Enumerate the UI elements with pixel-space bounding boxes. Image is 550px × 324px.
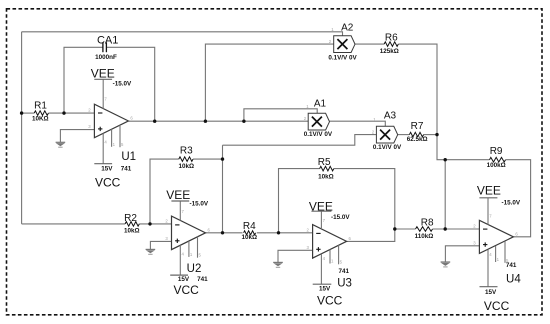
label VCC U2	[174, 283, 200, 297]
value R9 100kΩ	[487, 162, 506, 169]
resistor R8	[416, 227, 433, 232]
resistor R6	[384, 42, 398, 47]
label U4	[506, 273, 521, 285]
svg-text:VEE: VEE	[309, 200, 333, 214]
svg-text:741: 741	[506, 262, 517, 269]
op-amp U4	[479, 220, 513, 253]
value U3 741	[338, 268, 349, 275]
svg-text:10kΩ: 10kΩ	[242, 234, 258, 241]
svg-text:R5: R5	[318, 157, 331, 168]
U4 offset pin 5	[504, 241, 506, 263]
wire R6 down to R7 node	[398, 44, 445, 160]
svg-text:A3: A3	[384, 111, 397, 122]
label R4	[243, 221, 256, 232]
svg-text:R7: R7	[411, 121, 424, 132]
value R8 110kΩ	[415, 233, 434, 240]
svg-text:15V: 15V	[101, 166, 113, 173]
wire A2 output to R6	[355, 43, 384, 45]
svg-text:0.1V/V 0V: 0.1V/V 0V	[373, 144, 402, 151]
U4 VCC rail bar	[480, 286, 498, 288]
wire left vertical net	[21, 32, 23, 224]
U3 offset pin 5	[338, 245, 340, 264]
node A1 branch junction	[242, 120, 245, 123]
U4 offset pin 1	[495, 246, 497, 262]
U2 VCC rail bar	[170, 274, 188, 276]
value U2 741	[197, 276, 208, 283]
label R3	[180, 146, 193, 157]
wire branch to A2 lower input	[205, 44, 333, 121]
multiplier A2	[334, 36, 355, 53]
svg-text:VEE: VEE	[477, 184, 501, 198]
resistor R7	[409, 132, 423, 137]
U1 offset pin 5	[119, 125, 121, 147]
svg-text:A1: A1	[314, 98, 327, 109]
node R5/R8/U3 output junction	[393, 227, 396, 230]
node R1/left net junction	[20, 111, 23, 114]
value R5 10kΩ	[318, 173, 334, 180]
label R7	[411, 121, 424, 132]
svg-text:-15.0V: -15.0V	[502, 200, 521, 207]
wire R9 input row	[445, 159, 489, 161]
label R1	[34, 101, 47, 112]
value U1 741	[121, 166, 132, 173]
label CA1	[97, 34, 118, 46]
label R2	[124, 213, 137, 224]
A2 pin numbers	[329, 27, 335, 44]
wire R7/R9 junction vertical	[444, 160, 446, 229]
svg-text:A2: A2	[341, 22, 354, 33]
label U3	[337, 278, 352, 290]
value U4 15V	[485, 289, 497, 296]
value A3 gain	[373, 144, 402, 151]
wire U1 output row	[128, 120, 308, 122]
capacitor CA1	[103, 42, 107, 52]
A3 pin numbers	[372, 117, 377, 135]
svg-text:R6: R6	[385, 33, 398, 44]
U2 pin numbers	[165, 209, 210, 258]
label VEE U2	[166, 188, 190, 202]
U3 VEE rail bar	[311, 210, 331, 212]
resistor R1	[34, 111, 48, 116]
resistor R5	[320, 166, 334, 171]
svg-text:0.1V/V 0V: 0.1V/V 0V	[328, 55, 357, 62]
value U1 -15.0V	[113, 81, 132, 88]
value U4 -15.0V	[502, 200, 521, 207]
wire R8 to U4 inverting input	[433, 228, 480, 230]
svg-text:VCC: VCC	[484, 299, 510, 313]
svg-text:741: 741	[338, 268, 349, 275]
value R4 10kΩ	[242, 234, 258, 241]
U2 offset pin 5	[197, 237, 199, 258]
svg-text:R8: R8	[421, 217, 434, 228]
wire R5 right side to U3 output	[334, 169, 395, 242]
value R1 10KΩ	[32, 116, 49, 123]
svg-text:VEE: VEE	[91, 66, 115, 80]
wire U2 non-inverting input to ground	[150, 241, 171, 249]
svg-text:R9: R9	[490, 146, 503, 157]
label VCC U1	[95, 176, 121, 190]
label VCC U3	[317, 293, 343, 307]
value R3 10kΩ	[179, 163, 195, 170]
label A3	[384, 111, 397, 122]
value R6 125kΩ	[380, 48, 399, 55]
U1 pin numbers	[88, 97, 133, 148]
U4 VEE pin wire	[487, 198, 489, 225]
label A1	[314, 98, 327, 109]
ground at U4 input	[441, 262, 451, 267]
value U3 -15.0V	[331, 214, 350, 221]
ground at U2 input	[146, 249, 156, 254]
wire R1 to U1 inverting input	[48, 112, 94, 114]
svg-text:R1: R1	[34, 101, 47, 112]
label VEE U3	[309, 200, 333, 214]
U3 pin numbers	[307, 218, 352, 264]
node CA1 left junction	[62, 111, 65, 114]
U2 VEE pin wire	[179, 201, 181, 221]
wire R2 input row	[22, 223, 126, 225]
svg-text:0.1V/V 0V: 0.1V/V 0V	[304, 131, 333, 138]
svg-text:125kΩ: 125kΩ	[380, 48, 399, 55]
svg-text:CA1: CA1	[97, 34, 118, 46]
ground at U3 input	[273, 262, 283, 267]
label U1	[121, 151, 136, 163]
svg-text:15V: 15V	[485, 289, 497, 296]
svg-text:R3: R3	[180, 146, 193, 157]
U4 VCC pin wire	[487, 250, 489, 287]
U3 offset pin 1	[329, 250, 331, 264]
svg-text:10kΩ: 10kΩ	[318, 173, 334, 180]
wire R2 to U2 inverting input	[139, 223, 171, 225]
svg-text:U2: U2	[187, 263, 202, 275]
U1 VEE rail bar	[94, 78, 112, 80]
resistor R2	[125, 222, 139, 227]
wire R9 right side to U4 output	[506, 160, 531, 237]
svg-text:15V: 15V	[319, 286, 331, 293]
wire R7 to vertical node	[424, 134, 437, 136]
svg-text:741: 741	[197, 276, 208, 283]
wire U4 non-inverting input to ground	[445, 246, 479, 262]
wire CA1 feedback loop	[64, 47, 103, 113]
multiplier A1	[308, 113, 329, 130]
svg-text:U1: U1	[121, 151, 136, 163]
node R6/R7 junction	[435, 133, 438, 136]
label R8	[421, 217, 434, 228]
U4 pin numbers	[473, 214, 518, 263]
label A2	[341, 22, 354, 33]
svg-text:R2: R2	[124, 213, 137, 224]
wire R4 to U3 inverting input	[257, 232, 313, 234]
label U2	[187, 263, 202, 275]
wire U2 output row	[206, 232, 243, 234]
svg-text:741: 741	[121, 166, 132, 173]
value U2 15V	[178, 276, 190, 283]
svg-text:10KΩ: 10KΩ	[32, 116, 49, 123]
node R8/U4 input junction	[444, 227, 447, 230]
svg-text:15V: 15V	[178, 276, 190, 283]
value R7 62.5kΩ	[407, 136, 428, 143]
op-amp U2	[172, 216, 206, 250]
svg-text:-15.0V: -15.0V	[331, 214, 350, 221]
node R5 left junction	[277, 231, 280, 234]
node A2 branch junction	[204, 120, 207, 123]
label VCC U4	[484, 299, 510, 313]
wire A1 output to A3 top input	[330, 121, 386, 126]
value CA1 1000nF	[95, 54, 117, 61]
U2 VCC pin wire	[179, 245, 181, 275]
resistor R4	[244, 231, 256, 235]
wire R5 feedback left side	[279, 169, 320, 233]
U2 offset pin 1	[188, 241, 190, 257]
value A2 gain	[328, 55, 357, 62]
node R3/U2 output junction	[221, 157, 224, 160]
U1 VCC pin wire	[102, 133, 104, 163]
wire U2 output vertical to A3 net	[222, 145, 224, 233]
A1 pin numbers	[304, 104, 310, 121]
svg-text:VCC: VCC	[174, 283, 200, 297]
svg-text:U4: U4	[506, 273, 521, 285]
node R2/R3 junction	[148, 222, 151, 225]
U1 offset pin 1	[111, 129, 113, 147]
op-amp U3	[313, 225, 347, 259]
value U4 741	[506, 262, 517, 269]
value U2 -15.0V	[190, 201, 209, 208]
wire R1 input row	[22, 112, 35, 114]
wire CA1 right side to U1 output	[106, 47, 154, 121]
wire branch to A1 top input	[244, 109, 317, 121]
svg-text:100kΩ: 100kΩ	[487, 162, 506, 169]
label R6	[385, 33, 398, 44]
U4 VEE rail bar	[479, 197, 497, 199]
resistor R3	[179, 157, 193, 162]
node U1 output / CA1 junction	[153, 120, 156, 123]
value A1 gain	[304, 131, 333, 138]
label VEE U1	[91, 66, 115, 80]
svg-text:U3: U3	[337, 278, 352, 290]
wire R3 right side	[193, 158, 223, 160]
svg-text:110kΩ: 110kΩ	[415, 233, 434, 240]
svg-text:VCC: VCC	[317, 293, 343, 307]
resistor R9	[490, 157, 506, 162]
op-amp U1	[94, 104, 128, 138]
svg-text:-15.0V: -15.0V	[113, 81, 132, 88]
label VEE U4	[477, 184, 501, 198]
U1 VEE pin wire	[102, 79, 104, 108]
svg-text:62.5kΩ: 62.5kΩ	[407, 136, 428, 143]
ground at U1 input	[56, 142, 66, 147]
wire R3 feedback left side	[150, 159, 179, 224]
wire A3 output to R7	[398, 134, 409, 136]
svg-text:VEE: VEE	[166, 188, 190, 202]
wire top feedback net	[22, 32, 343, 36]
U3 VCC rail bar	[313, 283, 332, 285]
svg-text:1000nF: 1000nF	[95, 54, 117, 61]
svg-text:VCC: VCC	[95, 176, 121, 190]
svg-text:-15.0V: -15.0V	[190, 201, 209, 208]
wire U1 non-inverting input to ground	[60, 130, 94, 143]
node U2 output junction	[221, 231, 224, 234]
value U3 15V	[319, 286, 331, 293]
U2 VEE rail bar	[171, 200, 189, 202]
U1 VCC rail bar	[94, 163, 112, 165]
svg-text:10kΩ: 10kΩ	[124, 228, 140, 235]
U3 VCC pin wire	[320, 254, 322, 284]
label R5	[318, 157, 331, 168]
U3 VEE pin wire	[320, 211, 322, 229]
wire U3 non-inverting input to ground	[278, 250, 313, 262]
value R2 10kΩ	[124, 228, 140, 235]
svg-text:R4: R4	[243, 221, 256, 232]
node R9 left junction	[444, 158, 447, 161]
svg-text:10kΩ: 10kΩ	[179, 163, 195, 170]
multiplier A3	[376, 126, 397, 143]
wire to A3 lower input	[223, 135, 377, 146]
value U1 15V	[101, 166, 113, 173]
wire R8 input row	[395, 228, 416, 230]
label R9	[490, 146, 503, 157]
